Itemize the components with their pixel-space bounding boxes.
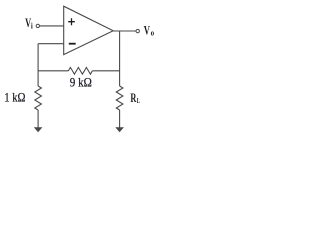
wire 1k to ground [37, 110, 39, 128]
ground arrow left [34, 127, 43, 132]
wire right vertical (output down to RL) [119, 31, 121, 86]
wire left vertical (node A down to 1k resistor) [37, 44, 39, 86]
wire op-amp - input to left node [38, 43, 64, 45]
svg-text:o: o [151, 28, 155, 38]
wire RL to ground [119, 110, 121, 128]
ground arrow right [115, 127, 124, 132]
resistor R2 9k zigzag [68, 67, 92, 74]
wire feedback right lead [92, 70, 119, 72]
op-amp U1 triangle [64, 6, 113, 54]
label 1 kOhm [4, 92, 25, 105]
label RL [130, 91, 140, 105]
svg-text:9 kΩ: 9 kΩ [70, 76, 92, 90]
resistor R1 1k zigzag [35, 86, 42, 110]
op-amp plus sign [68, 18, 75, 25]
wire Vi input to op-amp + [40, 25, 64, 27]
svg-text:V: V [144, 24, 150, 38]
label Vi [25, 16, 31, 30]
terminal circle Vo [136, 29, 139, 32]
op-amp minus sign [69, 43, 76, 45]
svg-text:1 kΩ: 1 kΩ [4, 92, 25, 105]
label 9 kOhm [70, 76, 92, 90]
svg-text:i: i [31, 21, 34, 31]
svg-text:L: L [137, 98, 140, 105]
terminal circle Vi [36, 24, 39, 27]
resistor RL zigzag [116, 86, 123, 110]
wire feedback left lead [38, 70, 68, 72]
wire output [113, 30, 136, 32]
svg-text:R: R [130, 91, 136, 105]
label Vo [144, 24, 150, 38]
